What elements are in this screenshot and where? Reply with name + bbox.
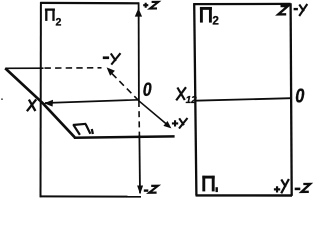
+y axis solid segment (from origin down-right) [139,101,167,125]
+Z label [143,2,158,9]
plane Pi2 rectangle bottom edge [40,195,141,197]
right diagram: plane rectangle left edge [194,3,196,195]
Pi2 label (right diagram): drawn pi glyph [200,7,212,23]
+y label (right diagram, inside bottom-right) [274,179,289,193]
plane Pi2 rectangle left edge [40,2,42,197]
Pi1 glyph inside parallelogram (skewed pi symbol) [73,124,93,135]
plane Pi1 front edge (thick) [74,136,175,137]
X label [27,99,36,111]
+y label (left diagram) [172,118,188,129]
svg-text:2: 2 [56,17,62,29]
right diagram: plane rectangle right edge [291,3,292,196]
Z axis dashed hidden segment (behind plane Pi1) [138,101,141,135]
Pi1 label (right diagram, inside bottom-left): drawn pi glyph [202,176,214,192]
Z label (right diagram, inside top-right) [278,6,288,14]
-y label (right diagram, outside top-right) [294,4,308,16]
right diagram: plane rectangle top edge [193,3,290,5]
svg-text:0: 0 [295,84,305,107]
+Z arrowhead [135,8,142,16]
plane Pi1 back edge solid part (left of Pi2) [5,67,43,69]
Pi2 label (left diagram): drawn pi glyph [45,9,55,21]
Z axis upper solid segment (right edge of Pi2, above origin) [138,2,140,101]
+y arrowhead [163,121,171,128]
plane Pi1 left edge (thick oblique) [5,68,74,137]
Z axis lower solid segment down to -Z arrow [138,135,141,193]
plane Pi2 rectangle (left, frontal plane) top edge [40,2,139,5]
-Z label [144,186,158,193]
-y label [103,53,121,64]
-Z arrowhead [137,186,143,195]
-z label (right diagram, outside bottom-right) [295,184,311,192]
svg-text:12: 12 [186,95,198,106]
stray speck at far left edge [1,98,3,100]
-y axis dashed segment (from origin up-left) [110,72,139,101]
X12 label (outside left middle) [176,87,197,106]
X axis line [45,100,139,103]
svg-text:2: 2 [212,15,219,28]
-y arrowhead [107,67,115,75]
X12 axis line (middle) [195,98,291,101]
X axis arrowhead (pointing left) [44,100,53,107]
plane Pi1 back edge dashed part (hidden behind Pi2) [45,67,102,69]
right diagram: plane rectangle bottom edge [196,194,292,197]
svg-text:0: 0 [143,79,152,101]
Pi1 subscript 1 (bar) [216,187,218,192]
